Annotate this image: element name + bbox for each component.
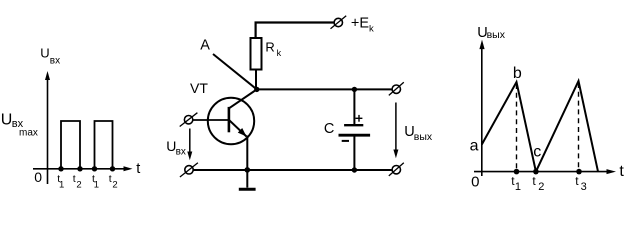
pulse 1 [61, 121, 80, 169]
label t2 [532, 174, 544, 193]
node dot t2 [533, 169, 539, 175]
label Rk [265, 40, 281, 58]
label t3 [575, 174, 587, 193]
U_vx arrow [187, 129, 192, 161]
svg-text:t: t [136, 161, 140, 177]
axis t horizontal [33, 166, 133, 171]
transistor VT circle [208, 98, 254, 144]
svg-text:A: A [200, 37, 210, 53]
bottom rail wire [193, 169, 392, 171]
collector lead [229, 89, 257, 108]
svg-text:0: 0 [471, 173, 479, 190]
svg-text:+E: +E [351, 15, 369, 31]
svg-text:c: c [533, 143, 541, 160]
svg-text:0: 0 [34, 169, 42, 185]
svg-text:вых: вых [414, 131, 433, 143]
svg-text:U: U [1, 111, 13, 128]
svg-text:вых: вых [487, 29, 506, 41]
circuit: collector supply rail wire [256, 23, 334, 39]
minus sign [342, 140, 349, 142]
label U_vx (axis) [40, 46, 60, 67]
svg-text:1: 1 [59, 180, 64, 191]
U_vyh arrow [393, 103, 398, 159]
svg-text:t: t [619, 163, 624, 180]
svg-text:t: t [109, 173, 112, 185]
junction dot cap bottom [352, 167, 357, 172]
pointer line to node A [213, 54, 257, 89]
capacitor C bottom plate [339, 134, 371, 137]
sawtooth waveform [482, 81, 598, 172]
axis t horizontal [474, 169, 616, 174]
svg-text:вх: вх [176, 147, 186, 158]
svg-text:t: t [73, 173, 76, 185]
svg-text:2: 2 [112, 180, 117, 191]
resistor Rk [251, 38, 262, 70]
dashed drop line t3 [578, 83, 580, 170]
dashed drop line t1 [516, 84, 518, 170]
svg-text:k: k [369, 23, 374, 34]
node dot t2 [77, 166, 82, 171]
input terminal top-left [180, 113, 198, 127]
svg-text:U: U [40, 46, 49, 61]
svg-text:a: a [470, 137, 479, 154]
svg-text:1: 1 [94, 180, 99, 191]
svg-text:R: R [265, 40, 274, 55]
label U_vyh (axis) [477, 25, 506, 41]
svg-text:2: 2 [538, 181, 544, 193]
svg-text:max: max [19, 127, 38, 138]
svg-text:вх: вх [50, 55, 60, 66]
capacitor C top wire [353, 89, 355, 124]
pulse 2 [95, 121, 113, 169]
node A junction dot [254, 87, 259, 92]
label t1 [57, 173, 64, 190]
label t1 second [92, 173, 99, 190]
output terminal bottom-right [389, 163, 404, 176]
terminal +Ek [331, 16, 347, 29]
bottom-left terminal [180, 163, 198, 177]
emitter lead with arrow [229, 120, 247, 137]
label t2 second [109, 173, 118, 190]
base wire [193, 119, 229, 121]
junction dot cap top [352, 87, 357, 92]
label t2 [73, 173, 82, 190]
capacitor C top plate [344, 124, 363, 126]
label U_vx (circuit) [166, 138, 186, 158]
capacitor C bottom wire [353, 137, 355, 171]
ground [239, 188, 256, 191]
label t1 [511, 174, 521, 193]
svg-text:C: C [324, 121, 334, 137]
node dot t3 [576, 169, 582, 175]
svg-text:3: 3 [581, 181, 587, 193]
junction dot emitter/bottom rail [245, 167, 251, 173]
node dot t1 [514, 169, 520, 175]
wire collector node to output [257, 88, 392, 90]
svg-text:1: 1 [515, 181, 521, 193]
label +Ek [351, 15, 374, 34]
svg-text:2: 2 [76, 180, 81, 191]
node dot t1 [58, 166, 63, 171]
axis Uvyh vertical [479, 40, 484, 176]
node dot t1b [92, 166, 97, 171]
plus sign [356, 115, 363, 122]
emitter wire down to ground rail [246, 136, 248, 188]
svg-text:VT: VT [190, 80, 208, 96]
svg-text:b: b [513, 65, 522, 82]
output terminal top-right [389, 82, 404, 95]
svg-text:k: k [277, 48, 282, 58]
transistor base bar [228, 107, 231, 132]
axis Uvx vertical [45, 71, 50, 184]
node dot t2b [110, 166, 115, 171]
label U_vx max [1, 111, 38, 138]
wire resistor to collector node [255, 70, 257, 90]
label U_vyh (circuit) [404, 124, 433, 143]
